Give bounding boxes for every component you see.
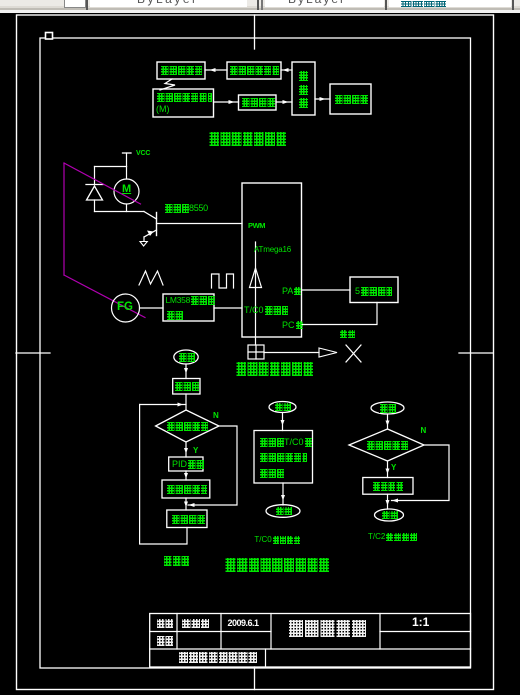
title block col line 4 [379,614,381,650]
fc2 wire start to box [281,413,285,431]
fc3 wire start to diamond [386,414,390,429]
magenta leader upper diagonal [64,163,141,204]
combo box 1 [64,0,86,8]
block motor-drive-circuit box [227,62,281,79]
fc1 duty-cycle box [162,480,210,498]
wire PA port to display [302,289,351,291]
fc3 caption [368,533,417,551]
label MCU vertical char 2 [298,85,308,95]
FG tacho circle [112,294,140,322]
fc3 N loop wire [392,445,450,503]
fc1 wire PID to duty box [184,471,188,480]
fc2 return ellipse [266,505,300,518]
fc1 Y label [193,447,198,455]
wire motor to drive-circuit [205,68,227,72]
title block col line 2 [220,614,222,650]
VCC power symbol [123,153,132,167]
pulse source grid symbol [248,345,264,359]
fc1 start label [178,353,195,362]
fc2 caption [254,536,299,554]
wire diode cathode drop [94,200,96,212]
bottom centering mark [254,667,256,690]
wire LM358 to MCU [214,307,242,309]
wire emitter drop [143,237,145,241]
fc1 duty label [166,485,207,494]
transistor Q1 collector lead [144,212,157,220]
wire shaping to MCU [276,100,292,104]
left centering mark [16,352,50,354]
label LM358 comparator line1 [166,296,216,314]
label display-speed text [334,95,368,104]
fc1 decision label [166,422,208,431]
combo box 2 ByLayer [90,0,247,7]
title block row divider left [150,631,271,633]
combo box 3 ByLayer [265,0,384,7]
wire motor bottom stem [126,204,128,212]
selection grip [46,33,53,40]
fc1 main-program label [163,556,189,566]
tb drafted-by label [156,619,173,628]
label PC port [282,321,303,339]
tb drafter name [181,619,209,629]
fc3 start ellipse [371,402,404,414]
label ATmega16 [254,246,291,254]
wire drive-circuit to MCU [281,68,292,72]
MCU U1 big box [242,183,302,337]
transistor Q1 base bar [156,213,158,236]
wire PC port to display [302,303,378,325]
tb date [228,619,259,628]
fc1 wire start to init [184,364,188,379]
fc2 record line3 [259,469,284,478]
title block row divider right [380,631,471,633]
fc2 start label [274,403,291,411]
fc1 start ellipse [174,350,198,364]
wire motor top stem [126,167,128,180]
label motor-drive-circuit text [229,66,279,75]
label FG glyph [117,302,133,314]
fc3 wire flag to return [386,494,390,509]
fc1 PID label [172,460,204,478]
label MCU vertical char 1 [298,71,308,81]
label motor M glyph [122,184,131,195]
label MCU vertical char 3 [298,98,308,108]
title block col line 3 [270,614,272,650]
fc1 wire duty to display box [184,498,188,510]
wire bottom rail to transistor [95,211,145,213]
tb checked-by label [156,636,173,646]
label LM358 comparator line2 [166,311,184,320]
title block outer rect [150,614,471,668]
label tacho-generator line2 (M) [156,105,170,114]
label digit-select [339,330,355,338]
block DC-motor box [157,62,205,79]
wire tacho to shaping [214,100,239,104]
fc2 start ellipse [269,402,296,413]
combo box 4 color byLayer [389,0,511,7]
triangle waveform [139,271,163,285]
diode D1 flyback [86,185,103,201]
label PWM pin [248,222,265,230]
fc3 set-flag label [372,482,403,491]
transistor Q1 emitter lead with arrow [144,230,157,237]
title block col line 1 [176,614,178,650]
title block bottom cell divider [265,649,267,667]
label DC-motor text [160,66,202,75]
label transistor 8550 [164,204,208,222]
fc1 loop junction arrow [140,403,186,407]
tb university name [178,652,257,664]
fc3 decision diamond [349,429,424,461]
toolbar strip [0,0,520,13]
label tacho-generator line1 [156,93,212,102]
fc3 start label [379,404,396,413]
label 5-digit display [355,287,392,305]
fc1 N label [213,412,219,420]
block shaping-circuit box [239,95,277,110]
block tacho-generator box [153,89,214,117]
fc1 init label [174,382,199,391]
fc1 return loop wire [140,405,187,545]
wire MCU to display [315,97,330,101]
label shaping-circuit text [241,98,275,107]
title overall-design-diagram [208,132,286,146]
fc1 init box [173,379,200,395]
annotation open arrowhead [319,348,337,357]
fc1 PID box [169,457,203,471]
fc3 set-flag box [363,478,413,495]
fc1 N loop wire [188,426,237,507]
inner drawing frame [40,38,471,668]
top centering mark [254,15,256,49]
tb drawing title [287,620,366,637]
title block bottom row divider [150,648,471,650]
fc2 record box [254,431,313,484]
wire diode anode drop [94,167,96,185]
fc1 wire init to diamond [185,394,187,410]
right centering mark [459,352,493,354]
fc3 Y label [391,464,396,472]
X mark [346,345,361,362]
fc2 record line2 [259,453,307,462]
LM358 comparator box [163,294,214,321]
annotation arrow line [264,352,319,354]
label PA port [282,287,301,305]
fc1 decision diamond [156,410,219,442]
wire base to MCU PWM [157,223,243,225]
fc3 return ellipse [375,509,404,521]
fc3 wire diamond to flag box [386,461,390,478]
wire FG to LM358 [140,307,164,309]
fc3 N label [421,427,427,435]
title software-design-diagram [224,558,329,573]
square waveform [212,274,234,288]
fc3 return label [381,511,398,519]
label T/C0 counter [244,306,288,324]
block MCU box [292,62,315,115]
label VCC [136,150,150,157]
fc1 display-speed box [167,510,207,528]
fc2 record line1 [259,438,312,456]
counter input vertical line [255,242,257,345]
fc1 wire diamond to PID [184,442,188,457]
tb scale 1:1 [412,616,429,628]
title hardware-diagram [235,362,313,376]
magenta leader vertical [63,163,65,275]
fc2 wire box to return [281,483,285,505]
counter arrowhead [250,268,262,288]
fc2 return label [275,507,292,515]
digit display box [350,277,398,303]
ground arrow [140,242,147,247]
motor M circle [114,179,139,204]
wire VCC rail to diode [95,166,127,168]
fc3 decision label [366,441,408,450]
block display-speed box [330,84,371,114]
magenta leader lower diagonal [64,275,145,318]
fc1 display label [171,515,205,524]
shaft zigzag link motor to tacho [160,79,175,90]
